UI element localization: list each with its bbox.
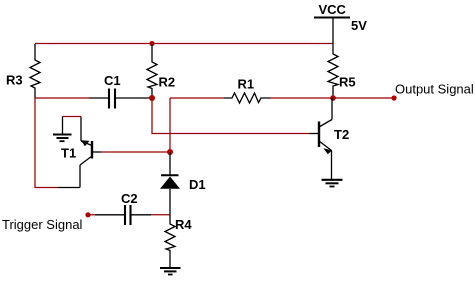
svg-text:R2: R2	[159, 75, 176, 90]
junction dot: C1/R2 node	[149, 95, 155, 101]
wire: collector loop black part	[58, 187, 80, 189]
resistor R1	[224, 93, 270, 103]
wire: T1 collector loop back to R3 bottom	[35, 98, 58, 188]
resistor R2	[147, 44, 157, 98]
wire: C2 to R4/D1 node	[151, 214, 170, 216]
wire: R1 right to T2 collector node	[270, 97, 333, 99]
svg-text:5V: 5V	[351, 18, 367, 33]
svg-text:R5: R5	[339, 75, 356, 90]
svg-text:R4: R4	[175, 217, 192, 232]
svg-text:C2: C2	[121, 191, 138, 206]
wire: T1 base to node B junction	[101, 151, 170, 153]
power symbol VCC	[314, 18, 350, 44]
resistor R3	[30, 44, 40, 98]
svg-text:Trigger Signal: Trigger Signal	[2, 217, 83, 232]
ground (T1 emitter)	[53, 135, 72, 142]
capacitor C2	[95, 205, 151, 225]
svg-text:T1: T1	[61, 146, 76, 161]
resistor R4	[165, 215, 175, 268]
svg-text:Output Signal: Output Signal	[395, 82, 474, 97]
node B corner: R1 left / T1 base / D1 top	[169, 98, 171, 152]
wire: output signal line	[333, 97, 394, 99]
wire: down to T1 ground	[62, 117, 64, 135]
diode D1 (cathode bar up)	[160, 152, 180, 215]
wire: R3 bottom to C1 (red part)	[35, 97, 89, 99]
svg-text:R1: R1	[238, 77, 255, 92]
wire: node A down from C1/R2 junction then right to T2 base	[152, 98, 309, 134]
transistor T1 (NPN, emitter up to ground)	[80, 117, 101, 188]
junction dot: R2 top on VCC rail	[149, 41, 154, 46]
ground (T2 emitter)	[322, 180, 343, 187]
wire: trigger input to C2	[88, 214, 95, 216]
junction dot: trigger input terminal	[85, 212, 90, 217]
wire: node B to R1 left	[170, 97, 224, 99]
junction dot: T2 collector / R5 / output node	[330, 95, 336, 101]
svg-text:VCC: VCC	[319, 2, 347, 17]
svg-text:C1: C1	[104, 73, 121, 88]
svg-text:R3: R3	[6, 73, 23, 88]
resistor R5	[328, 44, 338, 99]
wire: T1 emitter to ground corner	[63, 116, 82, 118]
svg-text:T2: T2	[334, 127, 349, 142]
junction dot: output terminal	[391, 95, 396, 100]
wire: top VCC rail from R3 top to VCC stem	[35, 43, 333, 45]
ground (R4 bottom)	[160, 268, 181, 275]
svg-text:D1: D1	[189, 177, 206, 192]
capacitor C1	[89, 89, 152, 109]
transistor T2 (NPN)	[309, 98, 332, 179]
junction dot: T1 base / R1 / D1 node	[167, 149, 173, 155]
